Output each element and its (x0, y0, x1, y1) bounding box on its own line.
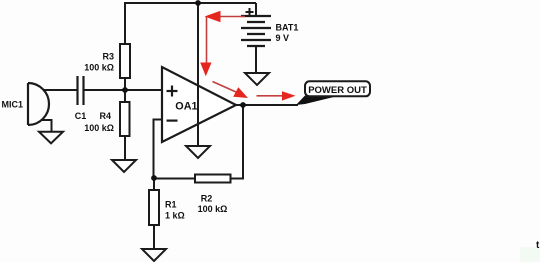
svg-text:POWER OUT: POWER OUT (308, 85, 367, 96)
svg-text:100 kΩ: 100 kΩ (84, 123, 114, 133)
svg-text:1 kΩ: 1 kΩ (165, 210, 185, 220)
svg-text:OA1: OA1 (175, 100, 197, 112)
svg-text:100 kΩ: 100 kΩ (84, 62, 114, 72)
svg-text:MIC1: MIC1 (1, 99, 23, 109)
svg-text:R1: R1 (165, 199, 177, 209)
svg-text:BAT1: BAT1 (276, 23, 299, 33)
svg-text:C1: C1 (75, 111, 87, 121)
svg-text:R4: R4 (99, 111, 111, 121)
svg-text:100 kΩ: 100 kΩ (198, 204, 228, 214)
svg-text:R2: R2 (201, 194, 213, 204)
svg-text:9 V: 9 V (276, 33, 290, 43)
svg-text:R3: R3 (102, 51, 114, 61)
